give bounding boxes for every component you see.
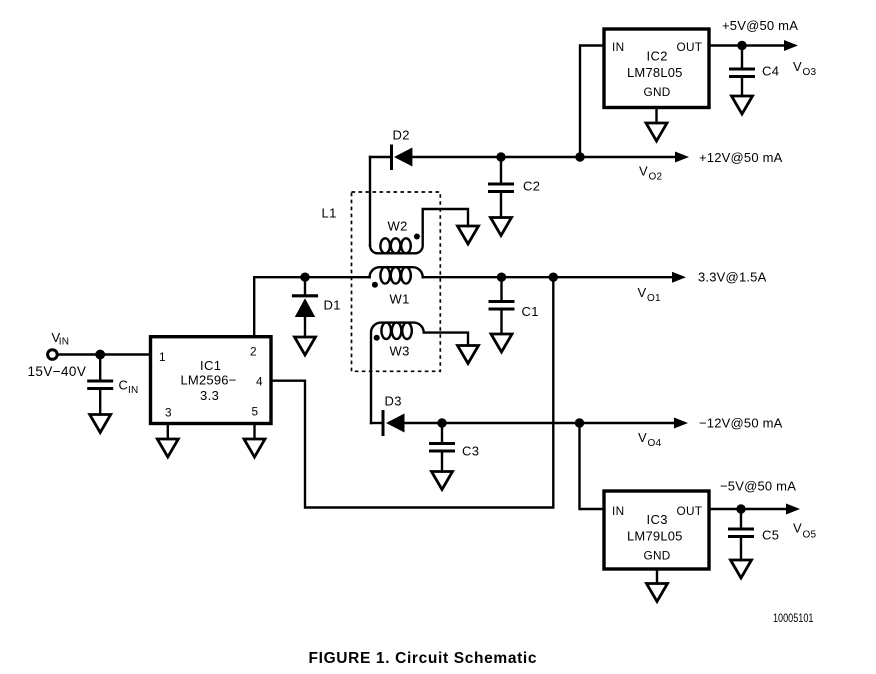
svg-text:D2: D2 [393,128,410,143]
svg-text:OUT: OUT [677,40,703,54]
svg-text:V: V [638,285,647,300]
svg-text:+5V@50 mA: +5V@50 mA [722,18,798,33]
svg-text:5: 5 [252,405,259,419]
svg-text:IC2: IC2 [647,49,668,64]
svg-text:GND: GND [644,85,671,99]
svg-text:W3: W3 [390,344,410,359]
svg-text:V: V [793,521,802,536]
svg-text:IN: IN [612,40,624,54]
svg-text:W1: W1 [390,292,410,307]
svg-text:LM2596−: LM2596− [181,373,237,388]
svg-text:O2: O2 [649,172,663,183]
svg-text:15V−40V: 15V−40V [28,364,87,379]
svg-text:D3: D3 [385,394,402,409]
svg-text:IN: IN [59,337,69,348]
svg-text:IN: IN [128,385,138,396]
svg-text:3.3V@1.5A: 3.3V@1.5A [698,270,767,285]
svg-text:LM79L05: LM79L05 [627,529,683,544]
svg-text:C5: C5 [762,528,779,543]
svg-text:−12V@50 mA: −12V@50 mA [699,416,783,431]
svg-text:C: C [119,378,129,393]
svg-text:W2: W2 [388,219,408,234]
svg-text:C4: C4 [762,64,779,79]
svg-text:O4: O4 [648,438,662,449]
svg-text:IN: IN [612,504,624,518]
svg-text:OUT: OUT [677,504,703,518]
svg-text:V: V [638,430,647,445]
svg-text:D1: D1 [324,298,341,313]
svg-text:3.3: 3.3 [200,388,219,403]
svg-text:IC3: IC3 [647,512,668,527]
svg-text:O1: O1 [647,293,661,304]
svg-text:LM78L05: LM78L05 [627,65,683,80]
svg-text:C3: C3 [462,444,479,459]
svg-text:3: 3 [165,406,172,420]
svg-text:2: 2 [250,345,257,359]
svg-text:V: V [639,164,648,179]
svg-text:V: V [793,59,802,74]
svg-text:4: 4 [256,375,263,389]
svg-text:+12V@50 mA: +12V@50 mA [699,150,783,165]
svg-text:O5: O5 [803,530,817,541]
svg-text:−5V@50 mA: −5V@50 mA [720,479,796,494]
svg-text:FIGURE 1. Circuit Schematic: FIGURE 1. Circuit Schematic [309,650,537,667]
svg-text:L1: L1 [322,206,337,221]
svg-text:10005101: 10005101 [773,611,814,625]
svg-text:GND: GND [644,549,671,563]
svg-text:O3: O3 [803,67,817,78]
svg-text:1: 1 [159,350,166,364]
svg-text:C2: C2 [523,179,540,194]
svg-text:IC1: IC1 [200,358,221,373]
svg-text:C1: C1 [522,304,539,319]
